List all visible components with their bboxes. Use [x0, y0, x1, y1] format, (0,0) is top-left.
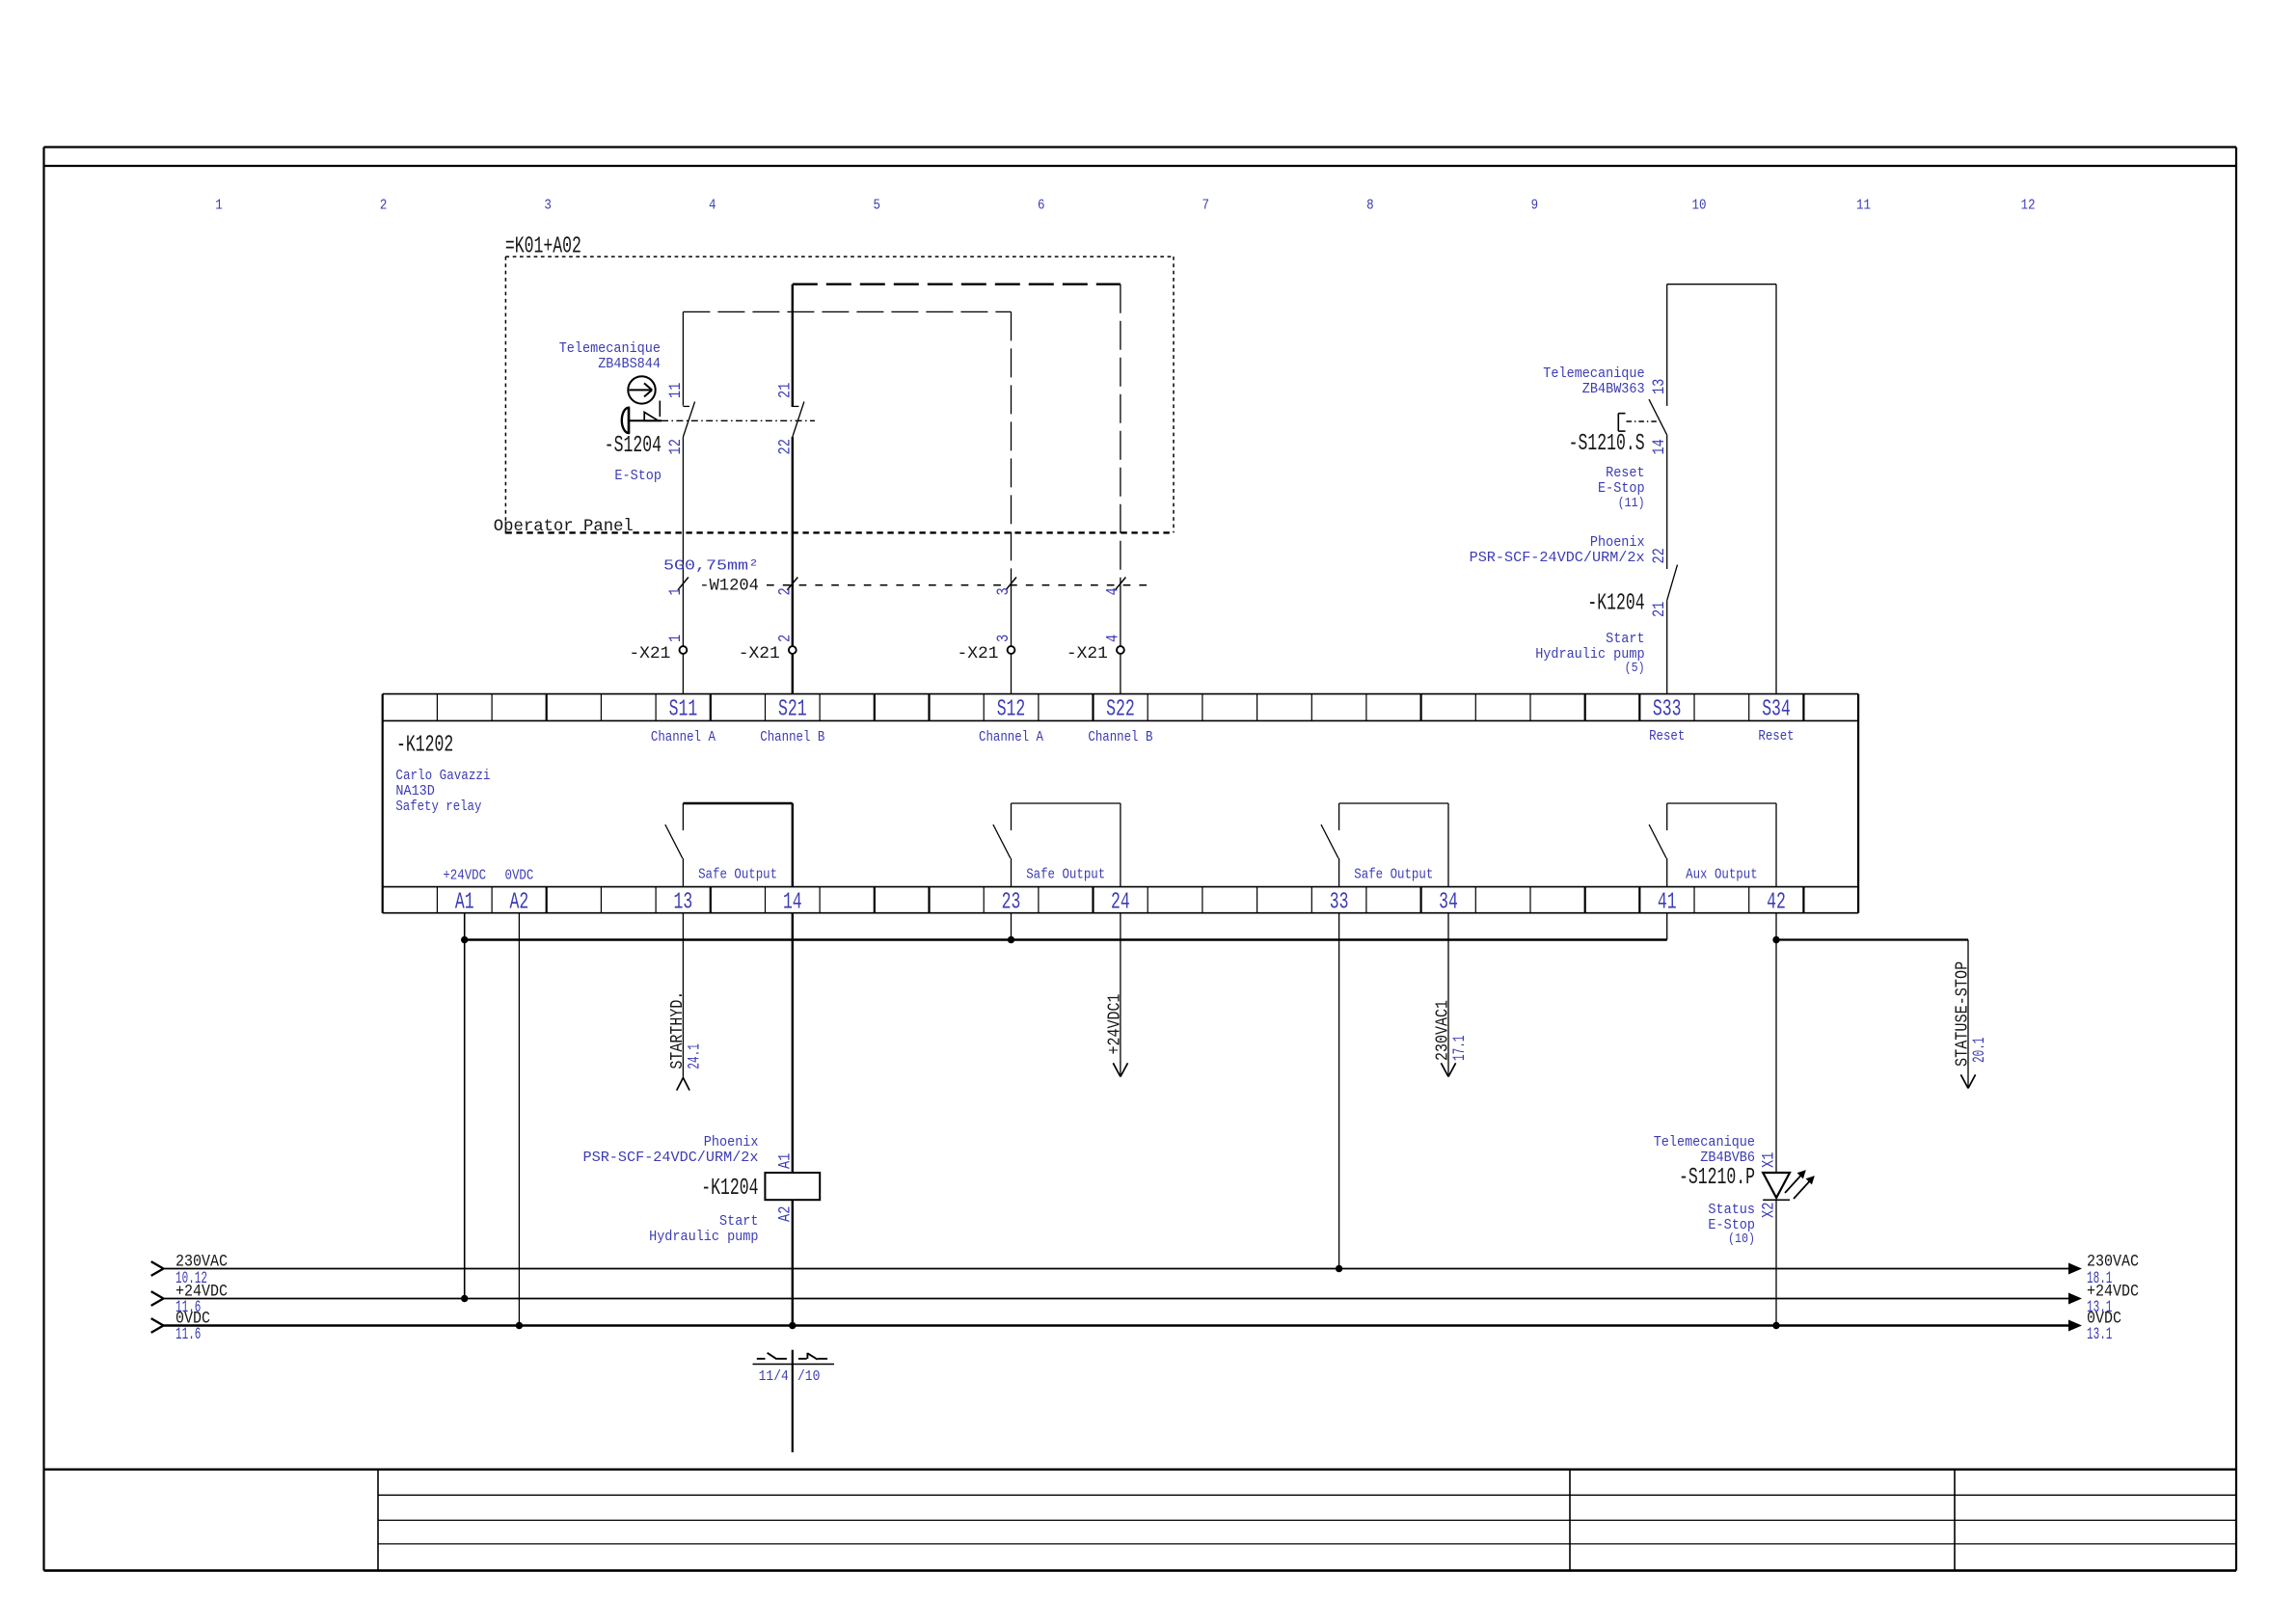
svg-text:-S1210.S: -S1210.S: [1569, 431, 1645, 457]
svg-text:-X21: -X21: [739, 644, 780, 663]
svg-text:S34: S34: [1762, 697, 1791, 723]
svg-text:ZB4BW363: ZB4BW363: [1582, 381, 1645, 397]
svg-text:PSR-SCF-24VDC/URM/2x: PSR-SCF-24VDC/URM/2x: [1470, 550, 1645, 566]
wire: S34 drop to relay terminal S34: [1775, 284, 1777, 694]
svg-text:Hydraulic pump: Hydraulic pump: [649, 1229, 758, 1245]
svg-text:34: 34: [1439, 889, 1458, 915]
svg-text:Carlo Gavazzi: Carlo Gavazzi: [395, 768, 490, 784]
safe output contact 33-34 of K1202: [1321, 803, 1448, 887]
svg-text:Telemecanique: Telemecanique: [1654, 1134, 1755, 1150]
wire: contact 22 down to terminal -X21:2 (bold): [792, 437, 794, 694]
svg-text:-S1210.P: -S1210.P: [1679, 1165, 1755, 1191]
svg-text:21: 21: [775, 383, 795, 398]
svg-text:14: 14: [783, 889, 802, 915]
wire: contact 12 down to terminal -X21:1: [682, 437, 684, 694]
svg-text:1: 1: [666, 635, 686, 642]
svg-text:+24VDC1: +24VDC1: [1104, 994, 1124, 1055]
wire: coil A2 to 0VDC rail (bold): [789, 1200, 796, 1329]
wire: A2 to 0VDC rail: [516, 913, 523, 1330]
svg-text:Channel B: Channel B: [760, 729, 824, 745]
svg-text:ZB4BVB6: ZB4BVB6: [1700, 1150, 1755, 1166]
svg-text:11: 11: [1856, 198, 1871, 214]
svg-text:-K1204: -K1204: [1587, 591, 1644, 617]
svg-text:7: 7: [1202, 198, 1210, 214]
svg-text:Aux Output: Aux Output: [1686, 867, 1758, 883]
svg-text:PSR-SCF-24VDC/URM/2x: PSR-SCF-24VDC/URM/2x: [583, 1150, 759, 1166]
safe output contact 13-14 of K1202 (bold): [665, 803, 793, 887]
svg-text:Start: Start: [1606, 631, 1645, 647]
svg-text:3: 3: [544, 198, 552, 214]
terminal -X21:1: [629, 635, 687, 663]
wire drop to -X21:4 (dashed): [1120, 284, 1121, 694]
channel function labels: [651, 728, 1795, 745]
power rail 230VAC: [151, 1253, 2139, 1289]
svg-text:6: 6: [1038, 198, 1045, 214]
svg-text:NA13D: NA13D: [395, 783, 435, 799]
svg-text:Safe Output: Safe Output: [1354, 867, 1433, 883]
title block: [44, 1470, 2237, 1571]
svg-text:11.6: 11.6: [176, 1325, 201, 1344]
wire jumper from contact 11 over to S12 drop (dashed): [683, 311, 1011, 312]
label -S1210.S Reset E-Stop (11): [1543, 365, 1644, 511]
relay bottom terminal labels: [455, 889, 1786, 915]
svg-text:13: 13: [1650, 379, 1669, 394]
svg-text:23: 23: [1002, 889, 1021, 915]
svg-text:42: 42: [1767, 889, 1786, 915]
svg-text:Start: Start: [719, 1213, 759, 1230]
wire: terminal 33 down to 230VAC rail: [1336, 913, 1342, 1273]
svg-text:Operator Panel: Operator Panel: [494, 517, 634, 536]
svg-text:A2: A2: [510, 889, 529, 915]
svg-text:5: 5: [873, 198, 880, 214]
column ruler numbers 1-12: [215, 198, 2035, 214]
svg-text:-S1204: -S1204: [605, 433, 662, 459]
svg-text:41: 41: [1658, 889, 1677, 915]
svg-text:2: 2: [775, 587, 795, 595]
svg-text:22: 22: [1650, 548, 1669, 563]
svg-text:13.1: 13.1: [2087, 1325, 2112, 1344]
svg-text:Reset: Reset: [1758, 728, 1794, 744]
svg-text:10: 10: [1692, 198, 1707, 214]
svg-text:Reset: Reset: [1606, 465, 1645, 481]
svg-text:-X21: -X21: [1067, 644, 1108, 663]
svg-text:S22: S22: [1106, 697, 1135, 723]
svg-text:13: 13: [674, 889, 693, 915]
svg-text:(10): (10): [1728, 1232, 1755, 1247]
e-stop actuator symbol (mushroom head + release arrow) of S1204: [622, 376, 662, 433]
svg-text:Channel A: Channel A: [979, 729, 1043, 745]
svg-text:24.1: 24.1: [685, 1043, 704, 1069]
svg-text:Telemecanique: Telemecanique: [559, 340, 661, 357]
svg-text:Phoenix: Phoenix: [704, 1134, 759, 1150]
terminal -X21:2: [739, 635, 797, 663]
svg-text:A1: A1: [455, 889, 474, 915]
svg-text:20.1: 20.1: [1970, 1038, 1989, 1063]
supply labels +24VDC 0VDC: [443, 868, 533, 884]
svg-text:Safe Output: Safe Output: [698, 867, 777, 883]
svg-text:1: 1: [215, 198, 223, 214]
relay coil -K1204 with labels: [583, 913, 821, 1245]
wire: reset loop top from S33 column to S34 column: [1667, 284, 1776, 285]
relay top terminal labels: [669, 697, 1791, 723]
operator panel enclosure =K01+A02: [494, 233, 1174, 535]
svg-text:4: 4: [1103, 587, 1122, 595]
svg-text:24: 24: [1111, 889, 1130, 915]
svg-text:Telemecanique: Telemecanique: [1543, 365, 1644, 382]
svg-text:17.1: 17.1: [1450, 1036, 1470, 1061]
wire: S1210.S pin14 down to K1204 contact pin22: [1666, 435, 1668, 569]
svg-text:-K1202: -K1202: [396, 733, 453, 759]
svg-text:A1: A1: [775, 1153, 795, 1169]
power rail 0VDC: [151, 1310, 2121, 1345]
svg-text:9: 9: [1531, 198, 1539, 214]
svg-text:S12: S12: [997, 697, 1026, 723]
wire: terminal 41 down to bus: [1666, 913, 1668, 940]
mechanical linkage dashed line of S1204: [662, 420, 815, 421]
svg-text:12: 12: [2021, 198, 2036, 214]
svg-text:E-Stop: E-Stop: [1598, 480, 1645, 497]
svg-text:3: 3: [994, 587, 1013, 595]
svg-text:Safety relay: Safety relay: [395, 798, 481, 815]
label -K1204 Start Hydraulic pump (5): [1470, 534, 1645, 676]
svg-text:2: 2: [380, 198, 388, 214]
wire: terminal 42 down to lamp X1: [1772, 913, 1779, 1172]
wire: terminal 23 down to bus: [1008, 913, 1014, 944]
e-stop NC contact 21-22 of S1204: [775, 284, 804, 455]
svg-text:11: 11: [666, 383, 686, 398]
bus wire from A1 to terminal 41 (bold): [461, 936, 1667, 943]
power rail +24VDC: [151, 1283, 2139, 1318]
svg-text:S33: S33: [1653, 697, 1682, 723]
reset push-button NO contact S1210.S: [1618, 284, 1669, 455]
wire jumper from contact 21 over to S22 drop (bold dashed): [793, 284, 1121, 285]
safety relay -K1202 body outline: [383, 694, 1858, 913]
wire: terminal 24 down to +24VDC1 arrow: [1104, 913, 1127, 1077]
cross-reference mirror of -K1204 contacts: [753, 1350, 835, 1452]
terminal -X21:3: [958, 635, 1015, 663]
svg-text:2: 2: [775, 635, 795, 642]
svg-text:3: 3: [994, 635, 1013, 642]
svg-text:Channel B: Channel B: [1088, 729, 1152, 745]
svg-text:0VDC: 0VDC: [505, 868, 534, 884]
svg-text:E-Stop: E-Stop: [614, 468, 662, 484]
svg-text:X1: X1: [1760, 1152, 1779, 1168]
svg-text:4: 4: [1103, 635, 1122, 642]
svg-text:Reset: Reset: [1649, 728, 1685, 744]
wire drop to -X21:3 (dashed): [1011, 311, 1013, 693]
svg-text:/10: /10: [797, 1368, 820, 1385]
svg-text:S11: S11: [669, 697, 698, 723]
relay auxiliary NO contact 22-21 of -K1204: [1650, 548, 1677, 617]
e-stop NC contact 11-12 of S1204: [666, 311, 695, 454]
aux output contact 41-42 of K1202: [1649, 803, 1776, 887]
wire: A1 to +24VDC rail: [461, 913, 468, 1303]
svg-text:5G0,75mm²: 5G0,75mm²: [663, 558, 759, 575]
svg-text:(11): (11): [1618, 496, 1645, 511]
svg-text:-X21: -X21: [958, 644, 999, 663]
svg-text:1: 1: [666, 587, 686, 595]
svg-text:11/4: 11/4: [759, 1368, 789, 1385]
label -K1202 Carlo Gavazzi NA13D Safety relay: [395, 733, 490, 815]
svg-text:8: 8: [1366, 198, 1374, 214]
cable -W1204 5G0,75mm2: [663, 558, 1153, 596]
svg-text:Phoenix: Phoenix: [1590, 534, 1645, 551]
branch wire to STATUS-E-STOP arrow: [1776, 940, 1989, 1089]
svg-text:S21: S21: [778, 697, 807, 723]
svg-text:Status: Status: [1708, 1202, 1755, 1218]
wire: terminal 34 down to 230VAC1 arrow: [1433, 913, 1471, 1077]
svg-text:Safe Output: Safe Output: [1026, 867, 1105, 883]
safe output contact 23-24 of K1202: [993, 803, 1121, 887]
wire: lamp X2 to 0VDC rail: [1772, 1200, 1779, 1329]
svg-text:(5): (5): [1625, 661, 1645, 676]
svg-text:+24VDC: +24VDC: [443, 868, 486, 884]
wire: K1204 contact pin21 down to relay terminal S33: [1666, 601, 1668, 694]
svg-text:4: 4: [709, 198, 716, 214]
svg-text:ZB4BS844: ZB4BS844: [598, 356, 661, 372]
svg-text:-K1204: -K1204: [701, 1176, 758, 1202]
svg-text:-X21: -X21: [629, 644, 670, 663]
indicator lamp -S1210.P Status E-Stop: [1654, 1134, 1814, 1247]
terminal -X21:4: [1067, 635, 1124, 663]
label -S1204 E-Stop: [559, 340, 662, 484]
svg-text:Channel A: Channel A: [651, 729, 716, 745]
svg-text:33: 33: [1330, 889, 1349, 915]
svg-text:-W1204: -W1204: [699, 577, 759, 596]
wire: terminal 13 down to STARTHYD arrow: [667, 913, 705, 1091]
